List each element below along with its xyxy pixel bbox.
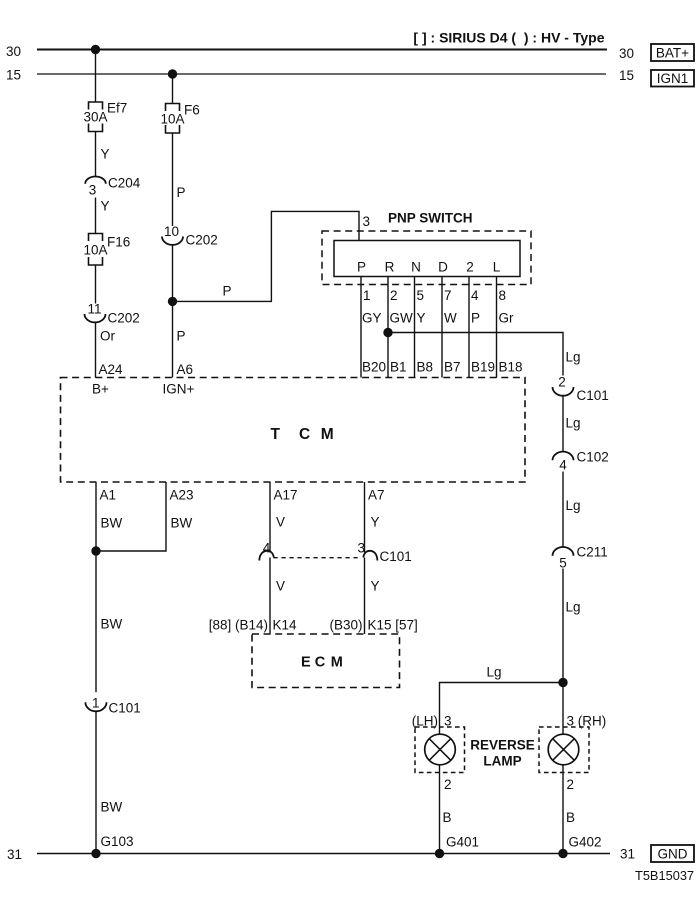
wire TCM A23 branch — [96, 482, 166, 551]
svg-text:K14: K14 — [273, 618, 298, 633]
BAT+ terminal box — [651, 44, 694, 61]
wire C211 to reverse lamps — [562, 569, 564, 728]
svg-text:B: B — [443, 810, 452, 825]
svg-text:P: P — [471, 311, 480, 326]
wire bus15 to fuse F6 — [172, 74, 174, 104]
svg-text:BAT+: BAT+ — [656, 46, 689, 61]
junction G402 on bus 31 — [559, 849, 567, 857]
svg-text:1: 1 — [363, 288, 371, 303]
svg-text:PNP SWITCH: PNP SWITCH — [388, 211, 473, 226]
svg-text:C202: C202 — [186, 233, 218, 248]
wire color P on branch — [223, 284, 232, 299]
wire color Lg — [566, 416, 581, 431]
svg-text:N: N — [411, 260, 421, 275]
wire bus30 to fuse Ef7 — [95, 50, 97, 103]
pin label A6 — [177, 362, 194, 377]
svg-text:C202: C202 — [108, 311, 140, 326]
svg-text:[ ] : SIRIUS D4 ( ) : HV - Ty: [ ] : SIRIUS D4 ( ) : HV - Type — [413, 30, 604, 46]
label 31 left — [7, 847, 22, 862]
wire color B — [566, 810, 575, 825]
svg-text:B20: B20 — [362, 360, 386, 375]
ground label G401 — [446, 835, 479, 850]
position letter L — [493, 260, 501, 275]
wire C101 to bus 31 — [95, 711, 97, 853]
connector C101 pin 2 — [553, 375, 609, 404]
wire C101 to C102 — [562, 396, 564, 452]
svg-text:C102: C102 — [577, 450, 609, 465]
connector C101 pin 1 — [85, 696, 140, 716]
fuse F16 10A — [83, 234, 130, 266]
svg-text:C101: C101 — [109, 701, 141, 716]
wire color P — [471, 311, 480, 326]
svg-text:7: 7 — [444, 288, 452, 303]
junction on bus 15 at F6 feed — [168, 70, 176, 78]
wire F6 to C202 pin 10 — [172, 133, 174, 226]
svg-text:A1: A1 — [100, 488, 117, 503]
wire color Y — [417, 311, 426, 326]
pin label A17 — [274, 488, 298, 503]
svg-text:M: M — [331, 655, 343, 671]
junction G401 on bus 31 — [435, 849, 443, 857]
wire branch junction to PNP switch pin 3 — [173, 211, 360, 301]
svg-text:C101: C101 — [380, 549, 412, 564]
svg-text:LAMP: LAMP — [483, 754, 521, 769]
wire color Lg (top of right column) — [566, 350, 581, 365]
svg-text:Lg: Lg — [487, 665, 502, 680]
fuse F6 10A — [160, 103, 199, 134]
wire color Lg — [566, 498, 581, 513]
wire color Y — [101, 147, 110, 162]
svg-text:GY: GY — [362, 311, 382, 326]
connector C101 pins 4/3 (TCM-ECM harness) — [259, 541, 411, 565]
svg-text:M: M — [321, 426, 334, 443]
wire TCM A17 to C101 pin 4 — [269, 482, 271, 553]
wire C101 pin 4 to ECM K14 — [269, 558, 271, 635]
wire PNP pin 4 to TCM B19 — [468, 277, 470, 378]
wire color BW — [101, 800, 123, 815]
svg-text:11: 11 — [87, 302, 101, 317]
GND terminal box — [651, 845, 694, 862]
svg-text:(B30): (B30) — [329, 618, 362, 633]
IGN1 terminal box — [651, 70, 694, 87]
wire PNP pin 1 to TCM B20 — [360, 277, 362, 378]
pin label B7 — [444, 360, 461, 375]
svg-text:V: V — [276, 579, 285, 594]
svg-text:GW: GW — [390, 311, 414, 326]
svg-text:V: V — [276, 515, 285, 530]
svg-text:Gr: Gr — [499, 311, 515, 326]
svg-text:C211: C211 — [577, 545, 608, 560]
svg-text:4: 4 — [559, 458, 567, 473]
connector C102 pin 4 — [553, 450, 609, 473]
position letter 2 — [466, 260, 474, 275]
pin label B8 — [417, 360, 434, 375]
wire color B — [443, 810, 452, 825]
svg-text:Y: Y — [101, 147, 110, 162]
wire color Gr — [499, 311, 515, 326]
svg-text:Y: Y — [417, 311, 426, 326]
ground label G402 — [569, 835, 602, 850]
TCM pin name IGN+ — [163, 382, 195, 397]
svg-text:10A: 10A — [83, 243, 107, 258]
position letter D — [438, 260, 448, 275]
connector C211 pin 5 — [553, 545, 608, 571]
PNP switch outer dashed housing — [322, 231, 531, 285]
connector C202 pin 11 — [85, 302, 140, 326]
svg-text:Y: Y — [371, 515, 380, 530]
svg-text:Lg: Lg — [566, 416, 581, 431]
svg-text:P: P — [177, 329, 186, 344]
wire RH lamp to ground G402 — [562, 773, 564, 854]
svg-text:W: W — [444, 311, 457, 326]
label 15 left — [6, 68, 21, 83]
wire TCM A1 to ground G103 — [95, 482, 97, 692]
svg-text:BW: BW — [171, 516, 193, 531]
svg-text:G103: G103 — [101, 834, 134, 849]
svg-text:15: 15 — [619, 68, 634, 83]
wire color BW — [101, 617, 123, 632]
svg-text:D: D — [438, 260, 448, 275]
ECM module dashed box — [252, 634, 400, 688]
pin label A23 — [170, 488, 194, 503]
svg-text:IGN+: IGN+ — [163, 382, 195, 397]
svg-text:B8: B8 — [417, 360, 434, 375]
svg-text:B19: B19 — [471, 360, 495, 375]
pin label B19 — [471, 360, 495, 375]
svg-text:30: 30 — [6, 44, 21, 59]
pin label B18 — [499, 360, 523, 375]
junction on GW wire to reverse-lamp feed — [384, 328, 392, 336]
label 30 left — [6, 44, 21, 59]
reverse lamp RH dashed box — [539, 727, 589, 773]
wire color P — [177, 329, 186, 344]
svg-text:8: 8 — [499, 288, 507, 303]
wire color GY — [362, 311, 382, 326]
ground label G103 — [101, 834, 134, 849]
reverse lamp RH bulb — [548, 727, 579, 773]
wire color V — [276, 579, 285, 594]
svg-text:4: 4 — [471, 288, 479, 303]
svg-text:C204: C204 — [108, 176, 141, 191]
svg-text:Y: Y — [371, 579, 380, 594]
svg-text:K15 [57]: K15 [57] — [368, 618, 418, 633]
svg-text:1: 1 — [92, 696, 100, 711]
svg-text:Or: Or — [100, 329, 116, 344]
wire color Y — [101, 199, 110, 214]
position letter P — [357, 260, 366, 275]
wire color GW — [390, 311, 414, 326]
wire junction to right column — [388, 333, 563, 376]
TCM U-module dashed box — [61, 378, 526, 483]
ECM pin label [88] (B14) K14 — [209, 618, 297, 633]
svg-text:Lg: Lg — [566, 600, 581, 615]
wire LH lamp to ground G401 — [439, 773, 441, 854]
LH lamp pin 2 label — [444, 777, 452, 792]
svg-text:IGN1: IGN1 — [657, 71, 689, 86]
wire PNP pin 8 to TCM B18 — [496, 277, 498, 378]
RH lamp pin 3 label — [567, 714, 607, 729]
fuse Ef7 30A — [83, 101, 127, 132]
wire Ef7 to C204 — [95, 132, 97, 178]
wire C102 to C211 — [562, 472, 564, 547]
svg-text:P: P — [223, 284, 232, 299]
wire color W — [444, 311, 457, 326]
wire C101 pin 3 to ECM K15 — [364, 558, 366, 635]
svg-text:10A: 10A — [160, 112, 184, 127]
ECM pin label (B30) K15 [57] — [329, 618, 417, 633]
pin number 4 — [471, 288, 479, 303]
svg-text:B18: B18 — [499, 360, 523, 375]
wire PNP pin 2 to TCM B1 — [387, 277, 389, 378]
svg-text:Lg: Lg — [566, 498, 581, 513]
position letter N — [411, 260, 421, 275]
svg-text:A7: A7 — [368, 488, 385, 503]
TCM pin name B+ — [92, 382, 109, 397]
wire color Y — [371, 515, 380, 530]
junction lamp feed — [559, 678, 567, 686]
label 15 right — [619, 68, 634, 83]
reverse lamp LH dashed box — [415, 727, 465, 773]
svg-text:A17: A17 — [274, 488, 298, 503]
svg-text:3: 3 — [363, 214, 371, 229]
svg-text:F6: F6 — [184, 103, 200, 118]
svg-text:B: B — [566, 810, 575, 825]
connector C204 pin 3 — [85, 176, 141, 198]
junction G103 on bus 31 — [92, 849, 100, 857]
svg-text:31: 31 — [7, 847, 22, 862]
svg-text:C: C — [299, 426, 310, 443]
svg-text:P: P — [357, 260, 366, 275]
svg-text:GND: GND — [658, 847, 688, 862]
svg-text:F16: F16 — [107, 235, 130, 250]
pin label B1 — [390, 360, 407, 375]
pin number 7 — [444, 288, 452, 303]
wire color Lg — [566, 600, 581, 615]
svg-text:Y: Y — [101, 199, 110, 214]
svg-text:BW: BW — [101, 617, 123, 632]
wire color V — [276, 515, 285, 530]
pin number 1 — [363, 288, 371, 303]
bus 31 (ground rail) — [37, 853, 610, 855]
svg-text:C101: C101 — [577, 388, 609, 403]
svg-text:Ef7: Ef7 — [107, 101, 127, 116]
wire junction to LH lamp — [440, 683, 564, 728]
wire color P — [177, 185, 186, 200]
bus 30 (BAT+ rail) — [37, 49, 607, 51]
svg-text:L: L — [493, 260, 501, 275]
wire color Or — [100, 329, 116, 344]
pin number 5 — [417, 288, 425, 303]
RH lamp pin 2 label — [567, 777, 575, 792]
svg-text:2: 2 — [444, 777, 452, 792]
svg-text:5: 5 — [417, 288, 425, 303]
label 31 right — [620, 847, 635, 862]
header note: [ ] : SIRIUS D4 ( ) : HV - Type — [413, 30, 604, 46]
svg-text:2: 2 — [466, 260, 474, 275]
connector C202 pin 10 — [162, 224, 218, 248]
svg-text:A6: A6 — [177, 362, 194, 377]
drawing number T5B15037 — [635, 868, 694, 883]
svg-text:2: 2 — [558, 375, 566, 390]
svg-text:5: 5 — [559, 556, 567, 571]
PNP switch feed pin 3 — [363, 214, 371, 229]
wire TCM A7 to C101 pin 3 — [364, 482, 366, 553]
wire color Lg — [487, 665, 502, 680]
svg-text:B7: B7 — [444, 360, 461, 375]
pin number 8 — [499, 288, 507, 303]
bus 15 (IGN rail) — [37, 73, 606, 75]
reverse lamp LH bulb — [425, 727, 456, 773]
svg-text:BW: BW — [101, 800, 123, 815]
svg-text:R: R — [385, 260, 395, 275]
svg-text:T5B15037: T5B15037 — [635, 868, 694, 883]
junction at PNP branch — [168, 297, 176, 305]
wire PNP pin 5 to TCM B8 — [414, 277, 416, 378]
svg-text:A24: A24 — [99, 362, 124, 377]
svg-text:BW: BW — [101, 516, 123, 531]
svg-text:B1: B1 — [390, 360, 407, 375]
svg-text:30: 30 — [619, 46, 634, 61]
svg-text:2: 2 — [567, 777, 575, 792]
svg-text:15: 15 — [6, 68, 21, 83]
pin label A7 — [368, 488, 385, 503]
wire F16 to C202 pin 11 — [95, 265, 97, 304]
svg-text:E: E — [301, 655, 311, 671]
svg-text:31: 31 — [620, 847, 635, 862]
svg-text:10: 10 — [164, 224, 179, 239]
pin number 2 — [390, 288, 398, 303]
svg-text:T: T — [271, 426, 281, 443]
svg-text:G401: G401 — [446, 835, 479, 850]
svg-text:4: 4 — [263, 541, 271, 556]
label 30 right — [619, 46, 634, 61]
pin label A24 — [99, 362, 124, 377]
ECM label — [301, 655, 343, 671]
wire color BW — [171, 516, 193, 531]
svg-text:[88] (B14): [88] (B14) — [209, 618, 268, 633]
wire color BW — [101, 516, 123, 531]
pin label A1 — [100, 488, 117, 503]
svg-text:C: C — [315, 655, 326, 671]
wire C202 to TCM pin A24 — [95, 322, 97, 377]
PNP SWITCH title — [388, 211, 473, 226]
pin label B20 — [362, 360, 386, 375]
svg-text:Lg: Lg — [566, 350, 581, 365]
wire color Y — [371, 579, 380, 594]
svg-text:P: P — [177, 185, 186, 200]
svg-text:3: 3 — [89, 183, 97, 198]
REVERSE LAMP label — [470, 738, 535, 769]
svg-text:A23: A23 — [170, 488, 194, 503]
wire C204 to fuse F16 — [95, 198, 97, 234]
LH lamp pin 3 label — [412, 714, 452, 729]
svg-text:G402: G402 — [569, 835, 602, 850]
svg-text:REVERSE: REVERSE — [470, 738, 535, 753]
svg-text:B+: B+ — [92, 382, 109, 397]
wire PNP pin 7 to TCM B7 — [441, 277, 443, 378]
svg-text:2: 2 — [390, 288, 398, 303]
junction on bus 30 at Ef7 feed — [91, 45, 99, 53]
wire C202 to TCM pin A6 — [172, 245, 174, 378]
svg-text:30A: 30A — [83, 110, 107, 125]
junction A23 joins A1 — [92, 547, 100, 555]
position letter R — [385, 260, 395, 275]
PNP switch body — [334, 241, 520, 277]
TCM label — [271, 426, 334, 443]
